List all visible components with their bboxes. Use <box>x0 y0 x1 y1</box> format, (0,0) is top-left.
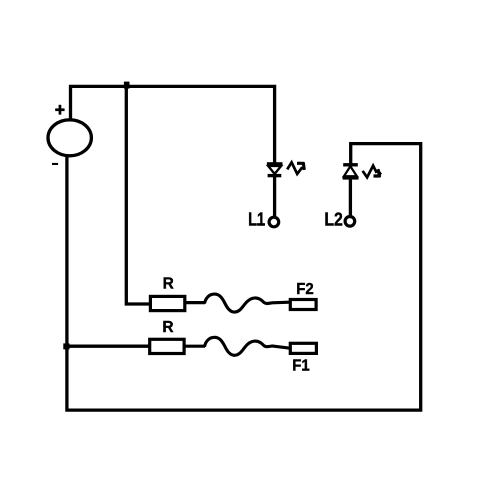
svg-text:R: R <box>163 275 174 292</box>
wire: F1 row from left wire to resistor <box>67 345 150 348</box>
wire: branch from top wire down to R (F2 row) <box>126 86 149 304</box>
label F1 <box>292 358 310 375</box>
fuse wire squiggle (F2 row) <box>205 294 290 312</box>
node: junction dot on left wire (F1 branch) <box>63 343 69 349</box>
wire: R to fuse wire (F1 row) <box>184 345 205 348</box>
wire: L1 LED to terminal <box>273 177 276 217</box>
label L1 <box>248 209 265 230</box>
svg-text:F1: F1 <box>292 358 310 375</box>
LED L1: triangle (pointing down) <box>268 166 281 174</box>
LED L1: cathode bar <box>268 174 282 177</box>
light arrow of L2 <box>363 166 382 178</box>
label: + terminal <box>55 105 64 115</box>
LED L1: anode bar <box>267 162 283 165</box>
battery V1 (voltage source circle) <box>48 120 91 156</box>
wire: source plus lead, top horizontal wire, drop to L1 <box>71 86 275 162</box>
light arrow of L1 <box>287 162 304 174</box>
LED L2: triangle (pointing up) <box>344 166 357 176</box>
svg-text:L1: L1 <box>248 209 265 230</box>
fuse holder F2 box <box>290 300 316 310</box>
wire: L2 LED to terminal <box>349 179 352 216</box>
label: - terminal <box>52 163 58 165</box>
resistor R (bottom, F1 row) <box>150 339 184 353</box>
svg-text:L2: L2 <box>324 209 343 230</box>
svg-text:R: R <box>162 319 173 336</box>
terminal circle L1 <box>269 217 279 227</box>
svg-text:F2: F2 <box>296 281 314 298</box>
fuse holder F1 box <box>290 343 316 353</box>
node: junction dot on top wire <box>124 82 130 89</box>
resistor R (top, F2 row) <box>150 296 184 310</box>
wire: outer loop (left vertical from source, bottom wire, right vertical, L2 top horizontal) <box>67 144 421 411</box>
wire: R to fuse wire (F2 row) <box>185 301 206 304</box>
LED L2: anode bar (bottom) <box>343 176 359 179</box>
fuse wire squiggle (F1 row) <box>205 337 292 355</box>
terminal circle L2 <box>345 217 355 227</box>
LED L2: cathode bar (top) <box>343 163 358 166</box>
